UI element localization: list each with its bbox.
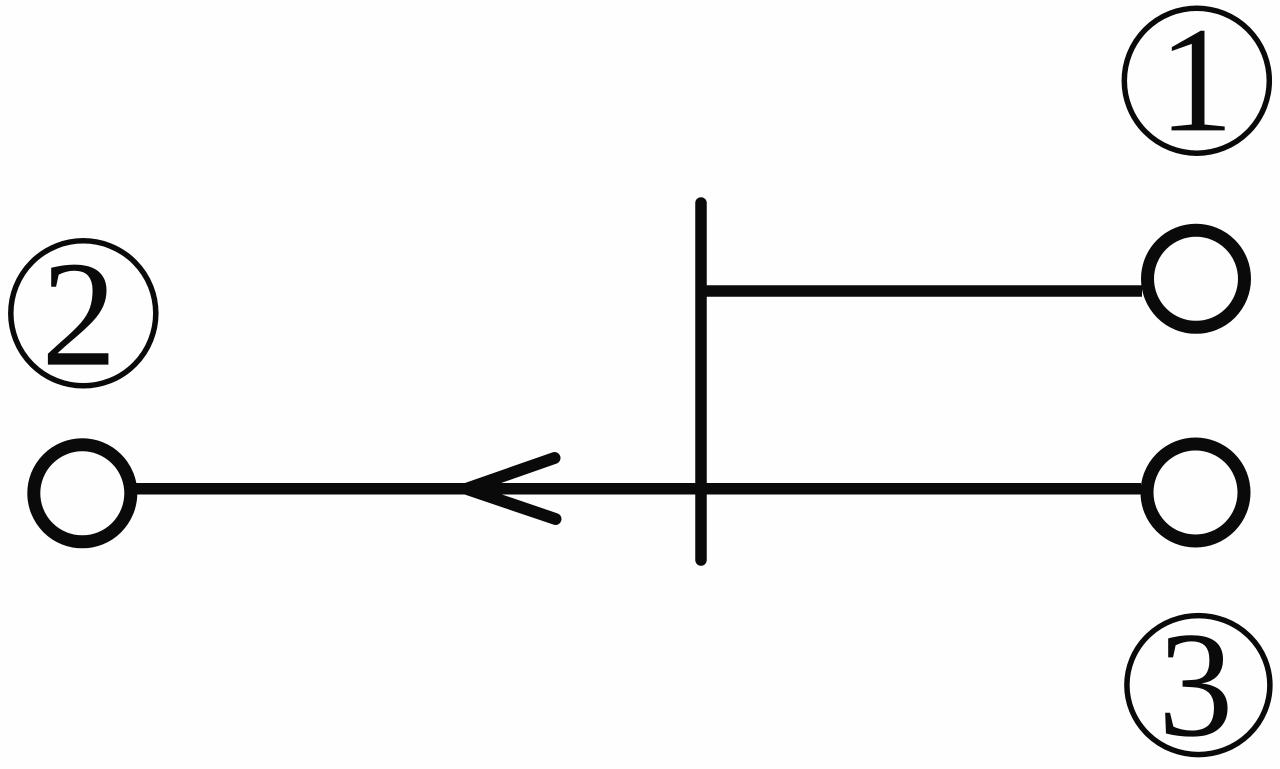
svg-text:3: 3 <box>1158 600 1234 768</box>
terminal circle 2 (left) <box>34 445 131 542</box>
label circle 2 <box>11 241 156 386</box>
switch actuator bar (vertical) <box>695 203 707 560</box>
terminal circle 3 (bottom right) <box>1147 444 1244 541</box>
arrowhead on movable contact (points left) <box>467 458 556 519</box>
svg-text:2: 2 <box>41 230 117 398</box>
wire: terminal 2 to terminal 3 (bottom horizontal, movable contact) <box>136 483 1141 495</box>
wire: bar to terminal 1 (top horizontal) <box>696 285 1142 297</box>
label circle 1 <box>1124 8 1269 153</box>
label circle 3 <box>1127 616 1270 755</box>
svg-text:1: 1 <box>1158 0 1234 163</box>
terminal circle 1 (top right) <box>1148 230 1245 327</box>
